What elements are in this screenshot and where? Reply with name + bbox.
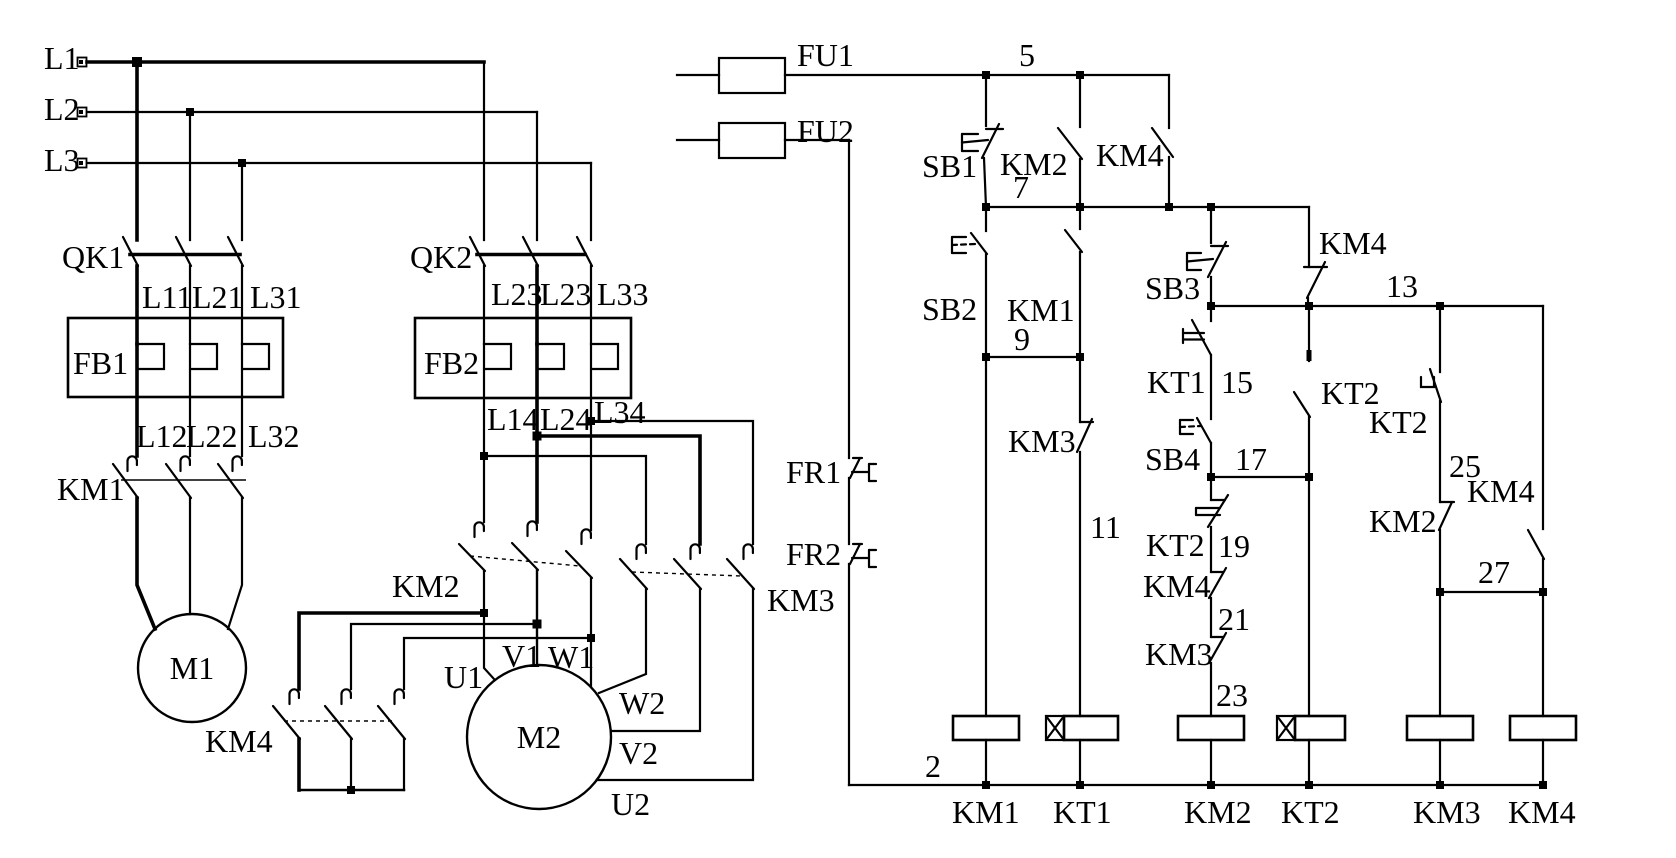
wire FR1-FR2 xyxy=(848,478,850,544)
wire QK1-FB1 pole3 xyxy=(241,266,243,344)
junction bus13/KT2 xyxy=(1305,302,1313,310)
junction bus17/KT2 xyxy=(1305,473,1313,481)
pushbutton SB2 (NO) xyxy=(952,233,987,254)
node 7 bus xyxy=(986,206,1309,208)
wire KT2 NC b to KM2 NO xyxy=(1439,401,1441,502)
terminal L3 xyxy=(78,159,87,168)
svg-text:FU2: FU2 xyxy=(797,113,854,149)
svg-text:L3: L3 xyxy=(44,142,80,178)
coil KT1 (time relay) xyxy=(1046,716,1118,740)
svg-text:KT2: KT2 xyxy=(1146,527,1205,563)
svg-text:KM4: KM4 xyxy=(1096,137,1164,173)
svg-text:L23: L23 xyxy=(491,276,543,312)
junction bus2/KM2 xyxy=(1207,781,1215,789)
svg-text:L12: L12 xyxy=(136,418,188,454)
contact KT1 (delayed NO) xyxy=(1183,320,1211,355)
wire KM2 coil to bus2 xyxy=(1210,740,1212,785)
svg-text:QK1: QK1 xyxy=(62,239,124,275)
wire QK1-FB1 pole1 xyxy=(135,266,139,344)
junction W-phase to KM3 xyxy=(587,417,595,425)
svg-text:L14: L14 xyxy=(487,401,539,437)
wire KM4 NO to bus27 xyxy=(1542,559,1544,592)
wire KM4 NC to KM3 NC xyxy=(1210,598,1212,637)
pushbutton SB3 (NC) xyxy=(1187,242,1228,277)
svg-text:L21: L21 xyxy=(192,279,244,315)
wire QK2-FB2 pole3 xyxy=(590,266,592,344)
wire SB2-bus9 xyxy=(985,254,987,357)
junction bus7/KM4 xyxy=(1165,203,1173,211)
svg-text:KM1: KM1 xyxy=(1007,292,1075,328)
FB2 heater element pole2 xyxy=(537,344,564,369)
thermal overload relay FB1 box xyxy=(68,318,283,397)
svg-text:L32: L32 xyxy=(248,418,300,454)
wire SB1 top xyxy=(985,75,987,126)
wire KM3 pole2 to V2 xyxy=(611,589,700,731)
disconnect switch QK1 xyxy=(123,237,243,266)
node 27 bus xyxy=(1440,591,1543,593)
wire KM3 pole1 to W2 xyxy=(599,589,646,693)
svg-text:FB1: FB1 xyxy=(73,345,128,381)
wire bus9 to KM3 NC xyxy=(1079,357,1081,422)
wire KT2 NO to bus17 xyxy=(1308,417,1310,477)
wire node2 bottom bus xyxy=(849,784,1543,786)
node 17 bus xyxy=(1211,476,1309,478)
motor M2 xyxy=(467,665,611,809)
thermal overload relay FB2 box xyxy=(415,318,631,398)
contactor main contact KM2 xyxy=(459,521,592,578)
FB1 heater element pole3 xyxy=(242,344,269,369)
contactor main contact KM3 xyxy=(620,544,754,589)
svg-text:SB2: SB2 xyxy=(922,291,977,327)
svg-text:M1: M1 xyxy=(170,650,214,686)
wire SB3 to bus13 xyxy=(1210,277,1212,306)
junction L1/QK1 pole1 xyxy=(132,57,142,67)
wire U1 star branch xyxy=(299,613,484,689)
svg-text:21: 21 xyxy=(1218,601,1250,637)
wire FB2 pole2 out xyxy=(535,344,539,522)
wire V1 star branch xyxy=(351,624,537,689)
wire KM2 pole2 to V1 xyxy=(536,570,538,665)
contactor main contact KM1 xyxy=(113,456,246,498)
wire KM3 NC to KM2 coil xyxy=(1210,663,1212,716)
wire FU2 drop xyxy=(848,140,850,458)
contact KT2 (NO aux) xyxy=(1294,392,1310,417)
svg-text:KM1: KM1 xyxy=(952,794,1020,830)
junction bus7/KM1 xyxy=(1076,203,1084,211)
pushbutton SB4 (NO) xyxy=(1180,418,1211,443)
wire KM2 NO to bus27 xyxy=(1439,530,1441,592)
contact KT2 (delayed NC b) xyxy=(1421,369,1441,402)
svg-text:SB3: SB3 xyxy=(1145,270,1200,306)
svg-text:KM3: KM3 xyxy=(1413,794,1481,830)
wire KM4 aux to bus7 xyxy=(1168,157,1170,207)
svg-text:2: 2 xyxy=(925,748,941,784)
junction bus2/KT2 xyxy=(1305,781,1313,789)
junction W1 star tap xyxy=(587,634,595,642)
junction bus2/KM4 xyxy=(1539,781,1547,789)
wire V-phase branch to KM3 pole2 xyxy=(537,436,700,544)
wire FB2 pole1 out xyxy=(483,344,485,522)
wire QK1 pole1 drop xyxy=(135,62,139,240)
contact KM4 (NC aux) xyxy=(1209,568,1226,598)
contact KM4 (NO aux b) xyxy=(1528,530,1544,559)
FB1 heater element pole2 xyxy=(190,344,217,369)
contact KM4 (NO aux top) xyxy=(1152,128,1173,157)
wire KM1 aux top xyxy=(1079,207,1081,229)
wire QK1 pole2 drop xyxy=(189,112,191,240)
node 9 bus xyxy=(986,356,1080,358)
junction U-phase to KM3 xyxy=(480,452,488,460)
wire L1 drop to QK2 xyxy=(483,62,485,240)
junction bus27/KM3 xyxy=(1436,588,1444,596)
disconnect switch QK2 xyxy=(470,237,592,266)
svg-text:L22: L22 xyxy=(186,418,238,454)
wire bus27 to KM4 coil xyxy=(1542,592,1544,716)
wire KT2 NC to KM4 NC xyxy=(1210,527,1212,572)
wire L2 drop to QK2 xyxy=(536,112,538,240)
svg-text:13: 13 xyxy=(1386,268,1418,304)
svg-text:SB4: SB4 xyxy=(1145,441,1200,477)
svg-text:KM4: KM4 xyxy=(1467,473,1535,509)
wire KM4 star pole1 down xyxy=(297,739,301,790)
coil KT2 (time relay) xyxy=(1277,716,1345,740)
wire SB4 to bus17 xyxy=(1210,443,1212,477)
svg-text:KM4: KM4 xyxy=(1508,794,1576,830)
coil KM1 xyxy=(953,716,1019,740)
svg-text:KT2: KT2 xyxy=(1281,794,1340,830)
wire FR2 down xyxy=(848,564,850,785)
junction bus9/SB2 xyxy=(982,353,990,361)
wire QK1-FB1 pole2 xyxy=(189,266,191,344)
wire L3 drop to QK2 xyxy=(590,163,592,240)
junction bus9/KM1 xyxy=(1076,353,1084,361)
thermal relay contact FR1 xyxy=(850,458,876,481)
svg-text:FR2: FR2 xyxy=(786,536,841,572)
svg-text:FR1: FR1 xyxy=(786,454,841,490)
wire KT1 to SB4 xyxy=(1210,355,1212,419)
svg-text:W1: W1 xyxy=(548,639,594,675)
wire KT1 coil to bus2 xyxy=(1079,740,1081,785)
junction U1 star tap xyxy=(480,609,488,617)
wire bus13 corner to KM4 NO xyxy=(1542,306,1544,529)
contact KM1 (NO aux) xyxy=(1065,230,1082,252)
pushbutton SB1 (NC) xyxy=(962,124,1003,158)
wire bus7 to SB3 xyxy=(1210,207,1212,243)
junction bus13/KT2b xyxy=(1436,302,1444,310)
junction bus2/KM3 xyxy=(1436,781,1444,789)
wire KM1 pole1 to M1 xyxy=(137,498,155,629)
contact KM2 (NO aux) xyxy=(1058,128,1082,159)
svg-text:QK2: QK2 xyxy=(410,239,472,275)
junction bus7/SB3 xyxy=(1207,203,1215,211)
svg-text:KM2: KM2 xyxy=(1184,794,1252,830)
svg-text:L31: L31 xyxy=(250,279,302,315)
coil KM4 xyxy=(1510,716,1576,740)
wire KM3 pole3 to U2 xyxy=(597,589,753,780)
node 13 bus xyxy=(1211,305,1543,307)
motor M1 xyxy=(138,614,246,722)
junction L2/QK1 pole2 xyxy=(186,108,194,116)
svg-text:11: 11 xyxy=(1090,509,1121,545)
svg-text:15: 15 xyxy=(1221,364,1253,400)
wire bus13 to KT2 NC delayed xyxy=(1439,306,1441,372)
FB2 heater element pole3 xyxy=(591,344,618,369)
fuse FU1 xyxy=(677,58,1169,93)
contact KT2 (delayed NC) xyxy=(1196,495,1228,527)
junction bus7/SB1 xyxy=(982,203,990,211)
svg-text:23: 23 xyxy=(1216,677,1248,713)
wire L3 bus xyxy=(87,162,591,164)
wire KM4 coil to bus2 xyxy=(1542,740,1544,785)
svg-text:L33: L33 xyxy=(597,276,649,312)
svg-text:KM2: KM2 xyxy=(392,568,460,604)
svg-text:L34: L34 xyxy=(594,394,646,430)
wire KM2 pole1 to U1 xyxy=(484,571,494,679)
wire KM2 aux top xyxy=(1079,75,1081,127)
svg-text:KT1: KT1 xyxy=(1053,794,1112,830)
wire FB1 pole3 out xyxy=(241,344,243,456)
thermal relay contact FR2 xyxy=(850,544,876,567)
junction bus2/KT1 xyxy=(1076,781,1084,789)
wire L1 bus xyxy=(87,60,484,64)
junction bus5/KM2 xyxy=(1076,71,1084,79)
wire KM1 aux to bus9 xyxy=(1079,252,1081,357)
wire bus17 to KT2 NC xyxy=(1210,477,1212,500)
junction V1 star tap xyxy=(533,620,542,629)
svg-text:U2: U2 xyxy=(611,786,650,822)
wire KM4 star pole2 down xyxy=(350,739,352,790)
wire W-phase branch to KM3 pole3 xyxy=(591,421,753,544)
svg-text:L23: L23 xyxy=(540,276,592,312)
coil KM2 xyxy=(1178,716,1244,740)
wire bus5 corner to KM4 xyxy=(1168,75,1170,128)
FB1 heater element pole1 xyxy=(137,344,164,369)
terminal L1 xyxy=(78,58,87,67)
wire KM4 latch to bus13 xyxy=(1307,298,1309,306)
svg-text:KM4: KM4 xyxy=(1319,225,1387,261)
svg-text:KM3: KM3 xyxy=(767,582,835,618)
svg-text:KM2: KM2 xyxy=(1000,146,1068,182)
wire FB1 pole1 out xyxy=(135,344,139,456)
contact KM2 (NO aux) xyxy=(1439,502,1454,530)
wire KM3 coil to bus2 xyxy=(1439,740,1441,785)
contact KM4 (NC latch) xyxy=(1304,262,1327,298)
svg-text:19: 19 xyxy=(1218,528,1250,564)
junction L3/QK1 pole3 xyxy=(238,159,246,167)
junction bus17/SB4 xyxy=(1207,473,1215,481)
wire KT2 coil to bus2 xyxy=(1308,740,1310,785)
wire star point bus xyxy=(299,789,404,791)
wire KM2 aux to bus7 xyxy=(1079,159,1081,207)
svg-text:W2: W2 xyxy=(619,685,665,721)
wire FB2 pole3 out xyxy=(590,344,592,530)
svg-text:U1: U1 xyxy=(444,659,483,695)
FB2 heater element pole1 xyxy=(484,344,511,369)
junction star point xyxy=(347,786,355,794)
wire KM1 pole3 to M1 xyxy=(228,498,242,629)
contact KM3 (NC aux) xyxy=(1077,419,1093,452)
wire QK1 pole3 drop xyxy=(241,163,243,240)
wire bus13 to KT2 NO xyxy=(1308,306,1310,361)
wire KM4 star pole3 down xyxy=(403,739,405,790)
svg-text:KM3: KM3 xyxy=(1145,636,1213,672)
wire SB1-bus7 xyxy=(984,158,986,207)
wire KM3 NC to KT1 coil xyxy=(1079,452,1081,716)
svg-text:FU1: FU1 xyxy=(797,37,854,73)
svg-text:KT2: KT2 xyxy=(1369,404,1428,440)
wire KM1 pole2 to M1 xyxy=(189,498,191,614)
junction V-phase to KM3 xyxy=(533,432,542,441)
svg-text:27: 27 xyxy=(1478,554,1510,590)
fuse FU2 xyxy=(677,123,849,158)
svg-text:KM1: KM1 xyxy=(57,471,125,507)
wire FB1 pole2 out xyxy=(189,344,191,456)
wire SB2 top xyxy=(985,207,987,231)
wire bus27 to KM3 coil xyxy=(1439,592,1441,716)
svg-text:FB2: FB2 xyxy=(424,345,479,381)
svg-text:5: 5 xyxy=(1019,37,1035,73)
svg-text:V2: V2 xyxy=(619,735,658,771)
contactor main contact KM4 (star) xyxy=(273,689,405,739)
wire W1 star branch xyxy=(404,638,591,689)
wire KM1 coil to bus2 xyxy=(985,740,987,785)
wire QK2-FB2 pole1 xyxy=(483,266,485,344)
svg-text:L24: L24 xyxy=(540,401,592,437)
coil KM3 xyxy=(1407,716,1473,740)
wire KM2 pole3 to W1 xyxy=(590,578,592,687)
svg-text:KT1: KT1 xyxy=(1147,364,1206,400)
junction bus5/SB1 xyxy=(982,71,990,79)
svg-text:KM3: KM3 xyxy=(1008,423,1076,459)
svg-text:L11: L11 xyxy=(142,279,192,315)
svg-text:KM2: KM2 xyxy=(1369,503,1437,539)
wire QK2-FB2 pole2 xyxy=(535,266,539,344)
svg-text:17: 17 xyxy=(1235,441,1267,477)
contact KM3 (NC aux 2) xyxy=(1209,633,1226,663)
svg-text:SB1: SB1 xyxy=(922,148,977,184)
wire bus17 to KT2 coil xyxy=(1308,477,1310,716)
junction bus27/KM4 xyxy=(1539,588,1547,596)
svg-text:L1: L1 xyxy=(44,40,80,76)
wire U-phase branch to KM3 pole1 xyxy=(484,456,646,544)
junction bus2/KM1 xyxy=(982,781,990,789)
svg-text:KM4: KM4 xyxy=(1143,568,1211,604)
terminal L2 xyxy=(78,108,87,117)
svg-text:V1: V1 xyxy=(502,638,541,674)
wire bus9 to KM1 coil xyxy=(985,357,987,716)
svg-text:M2: M2 xyxy=(517,719,561,755)
svg-text:KM4: KM4 xyxy=(205,723,273,759)
svg-text:L2: L2 xyxy=(44,91,80,127)
junction bus13/SB3 xyxy=(1207,302,1215,310)
wire bus13 to KT1 contact xyxy=(1210,306,1212,321)
wire L2 bus xyxy=(87,111,537,113)
wire bus7 corner to KM4 latch xyxy=(1308,207,1310,267)
